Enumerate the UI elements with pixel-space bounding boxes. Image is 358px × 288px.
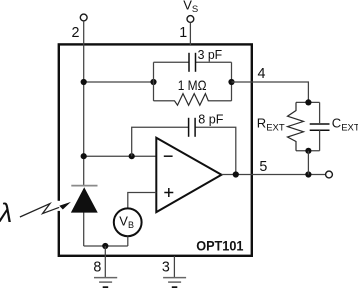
wire plus-input (VB to op amp)	[128, 193, 157, 209]
voltage source VB circle	[114, 208, 142, 236]
svg-text:3 pF: 3 pF	[198, 47, 223, 62]
wire op-amp output to pin5 terminal	[222, 174, 326, 176]
wire pin 4 (RC right node to external)	[232, 82, 309, 102]
wire node 2-line to feedback node (horizontal y=82)	[84, 81, 154, 83]
resistor R1 1M zigzag (bottom branch)	[154, 94, 232, 106]
svg-text:1 MΩ: 1 MΩ	[178, 77, 207, 93]
wire VB bottom to common	[127, 236, 129, 246]
wire cap C1 top branch right	[196, 61, 232, 63]
photodiode D1 cathode bar	[71, 185, 97, 187]
svg-text:2: 2	[72, 25, 80, 41]
svg-text:λ: λ	[0, 198, 12, 228]
wire RC loop right edge	[231, 62, 233, 101]
wire external bottom node to output wire	[307, 151, 309, 175]
capacitor C1 3pF plates	[189, 53, 196, 72]
svg-text:1: 1	[179, 25, 187, 41]
photodiode D1 triangle	[72, 188, 97, 212]
op-amp plus sign	[164, 188, 173, 197]
terminal Vs (top)	[187, 16, 194, 23]
svg-text:8 pF: 8 pF	[198, 111, 223, 126]
wire minus-input (pin2 line to op amp)	[84, 155, 157, 157]
junction dot pin2 line / minus wire	[81, 153, 87, 159]
junction dot common/pin8	[102, 243, 108, 249]
wire cap C1 top branch left	[154, 61, 190, 63]
svg-text:VS: VS	[183, 0, 198, 15]
junction dot at pin2 line / R1 wire	[81, 79, 87, 85]
junction dot at R1C1 left node	[150, 79, 156, 85]
terminal pin 2 (top left)	[80, 14, 87, 21]
junction dot external bottom	[305, 148, 311, 154]
svg-text:4: 4	[258, 66, 266, 82]
ground symbol at pin 8	[94, 278, 117, 283]
op-amp minus sign	[164, 155, 173, 157]
wire pin1 stub (Vs to box)	[189, 23, 191, 45]
capacitor CEXT plates	[310, 124, 330, 130]
junction dot R1C1 right node	[228, 79, 234, 85]
junction dot output/external network	[305, 171, 311, 177]
svg-text:5: 5	[259, 159, 267, 175]
svg-text:8: 8	[93, 259, 101, 275]
wire CEXT top stub	[319, 102, 321, 124]
svg-text:OPT101: OPT101	[196, 238, 243, 254]
wire feedback loop (left up, top, right down)	[132, 127, 189, 156]
svg-text:CEXT: CEXT	[332, 116, 358, 134]
wire pin2 stub and internal vertical (pin2 to photodiode)	[83, 21, 85, 185]
svg-text:REXT: REXT	[257, 116, 285, 134]
light arrow	[57, 201, 60, 211]
junction dot feedback left node	[129, 153, 135, 159]
wire external node top bar	[296, 101, 320, 103]
wire CEXT bottom stub	[319, 130, 321, 151]
wire pin 8 drop	[104, 246, 106, 278]
wire common bottom (diode anode to VB)	[84, 245, 128, 247]
IC body box U1 OPT101	[59, 44, 252, 255]
wire external node bottom bar	[296, 150, 320, 152]
wire RC loop left edge	[153, 62, 155, 101]
terminal output (right)	[326, 171, 333, 178]
resistor REXT vertical zigzag	[288, 102, 304, 150]
svg-text:3: 3	[162, 259, 170, 275]
ground symbol at pin 3	[163, 278, 186, 283]
junction dot output/feedback	[233, 171, 239, 177]
wire pin 3 drop	[173, 256, 175, 278]
junction dot external top	[305, 99, 311, 105]
capacitor C2 8pF plates	[189, 118, 196, 137]
op-amp A1 triangle	[156, 138, 221, 212]
